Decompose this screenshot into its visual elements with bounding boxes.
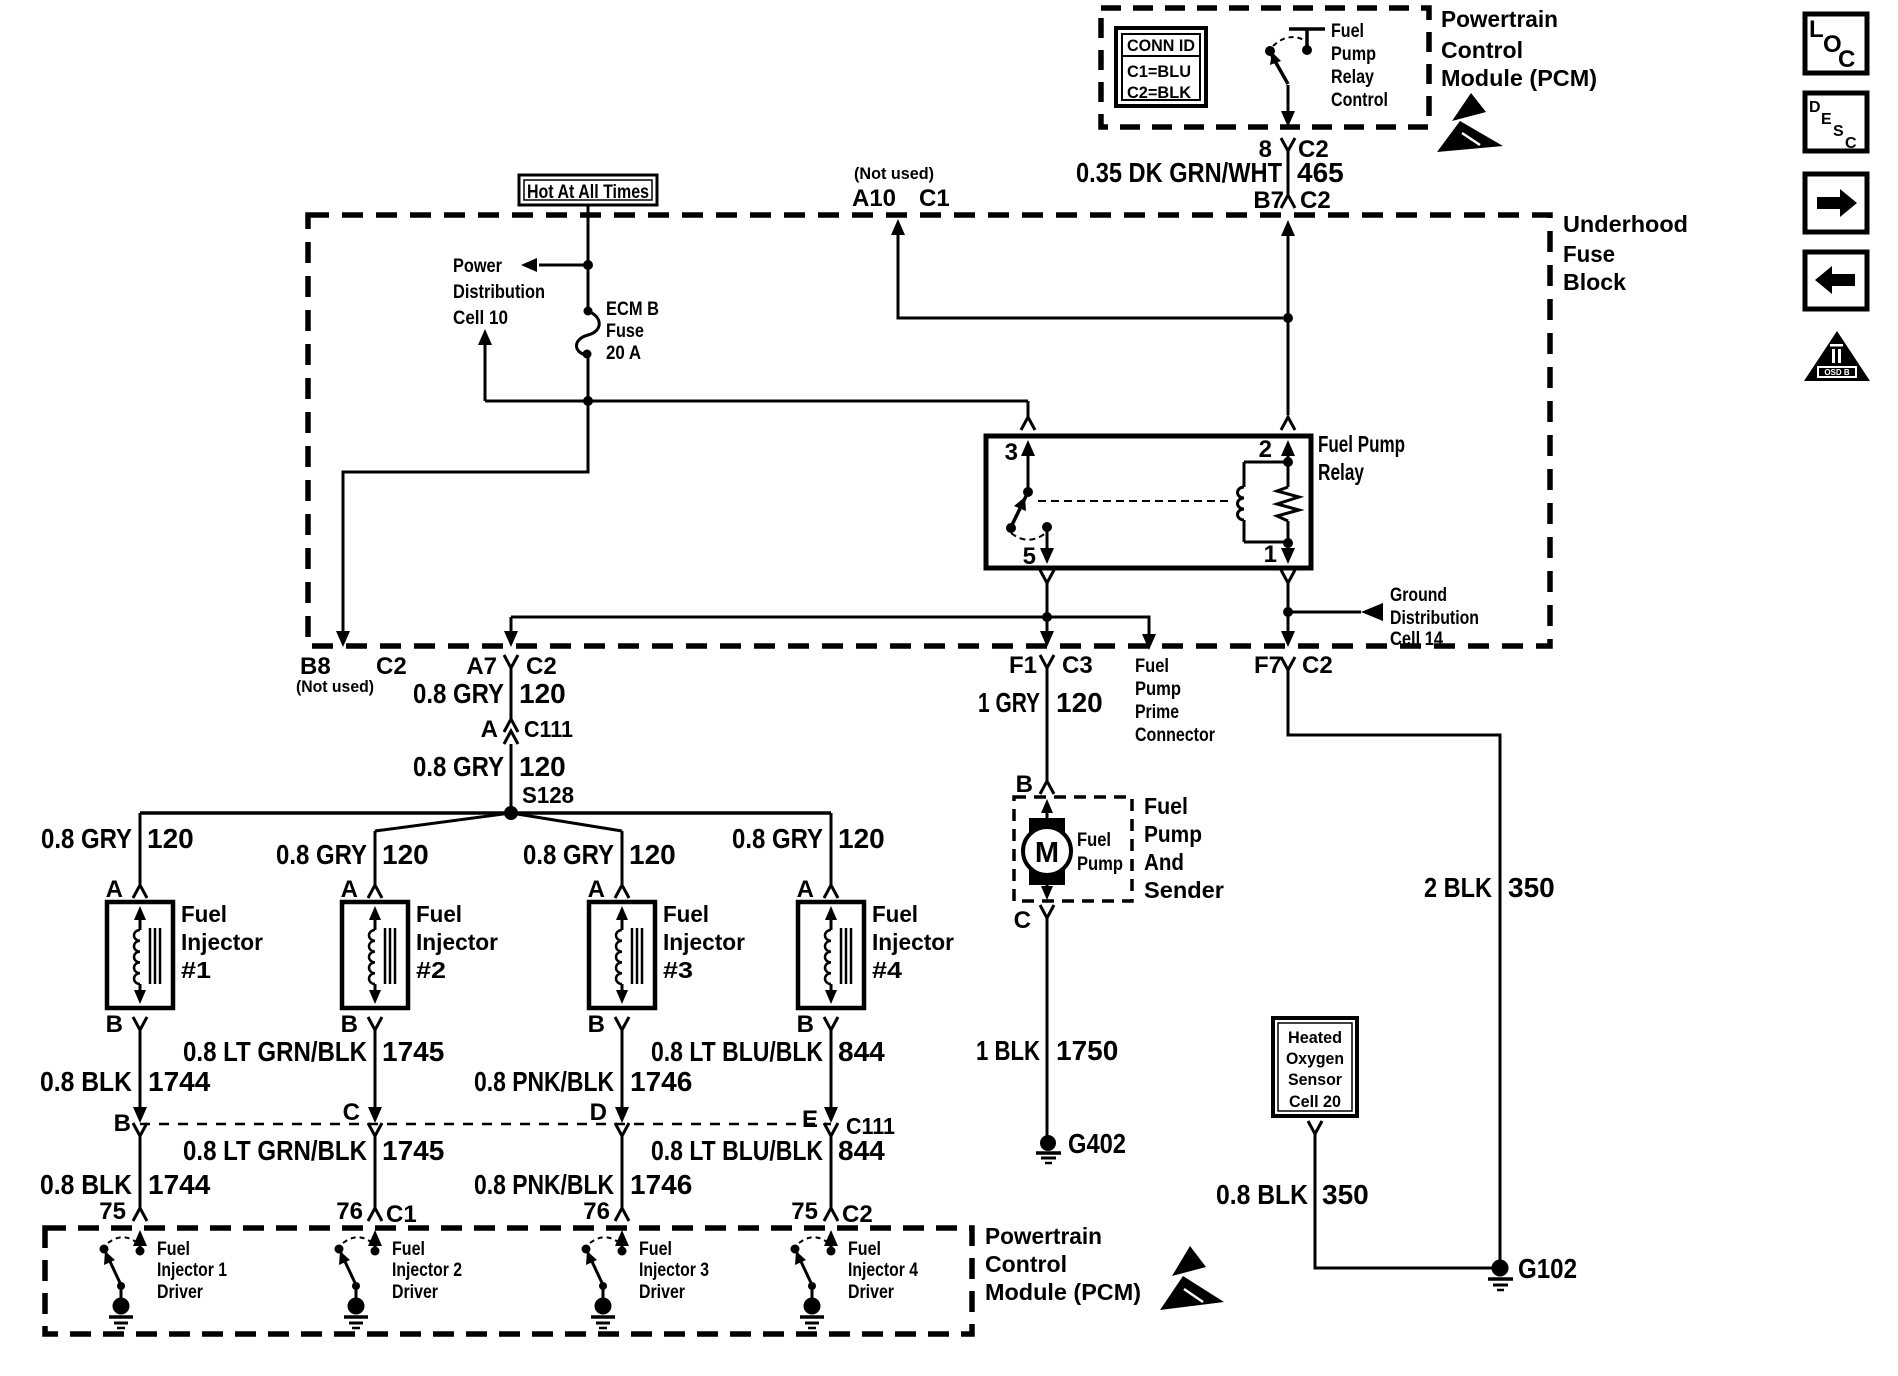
svg-text:1 BLK: 1 BLK	[976, 1035, 1040, 1066]
connector A C111	[481, 716, 574, 744]
svg-text:A7: A7	[466, 653, 497, 680]
svg-text:C1: C1	[919, 185, 950, 212]
svg-text:F1: F1	[1009, 652, 1037, 679]
svg-text:Control: Control	[985, 1251, 1067, 1277]
fuel injector 4 driver	[791, 1230, 839, 1328]
svg-text:Pump: Pump	[1144, 821, 1202, 847]
wire: bus to A7 drop	[511, 616, 1047, 619]
svg-text:A: A	[106, 876, 123, 903]
svg-text:Injector 4: Injector 4	[848, 1260, 918, 1281]
connector B7 C2 (underhood fuse block)	[1281, 195, 1295, 208]
svg-text:#2: #2	[416, 957, 446, 983]
relay resistor	[1277, 462, 1299, 543]
connector below relay pin 5	[1040, 570, 1054, 583]
svg-text:Cell 10: Cell 10	[453, 308, 508, 329]
PCM (bottom) dashed box	[45, 1228, 972, 1334]
svg-text:Fuel: Fuel	[663, 901, 709, 927]
svg-text:L: L	[1809, 16, 1824, 43]
relay pin 1	[1264, 538, 1295, 568]
svg-text:0.8 BLK: 0.8 BLK	[40, 1066, 132, 1097]
svg-text:Driver: Driver	[848, 1282, 895, 1303]
svg-text:A: A	[797, 876, 814, 903]
connector C111 inline row	[140, 1123, 831, 1126]
svg-text:Injector: Injector	[416, 929, 498, 955]
connector pin B injector 2	[368, 1017, 382, 1030]
svg-text:76: 76	[336, 1198, 363, 1225]
svg-text:Cell 20: Cell 20	[1289, 1092, 1341, 1111]
wire: A10 C1 branch (not used)	[891, 219, 905, 235]
fuel pump relay box	[986, 436, 1311, 568]
svg-text:Heated: Heated	[1288, 1028, 1342, 1047]
svg-text:Sender: Sender	[1144, 877, 1224, 903]
svg-text:C: C	[1838, 46, 1855, 73]
label: Fuel Injector #2	[416, 901, 498, 983]
node: junction to A7 bus	[1042, 612, 1052, 622]
svg-text:Fuel: Fuel	[848, 1239, 881, 1260]
connector PCM pin, injector 3	[615, 1208, 629, 1221]
connector pin A injector 4	[824, 885, 838, 898]
connector A7 C2	[504, 655, 518, 668]
wire: injector 4 return	[830, 1030, 833, 1114]
wire: F7 to G102 (2 BLK 350)	[1288, 670, 1500, 1261]
svg-text:Control: Control	[1441, 37, 1523, 63]
relay pin 3	[1005, 401, 1035, 492]
svg-text:E: E	[802, 1106, 818, 1133]
svg-text:S128: S128	[522, 782, 574, 808]
svg-text:Injector: Injector	[872, 929, 954, 955]
connector pin B fuel pump	[1040, 781, 1054, 794]
svg-text:75: 75	[99, 1198, 126, 1225]
svg-text:Connector: Connector	[1135, 725, 1216, 746]
sidebar LOC button	[1805, 14, 1867, 73]
sidebar DESC button	[1805, 93, 1867, 152]
fuel pump relay control switch (PCM driver)	[1265, 29, 1325, 84]
wire: feed bus to relay pin 3	[485, 400, 1028, 403]
svg-text:5: 5	[1023, 543, 1036, 570]
svg-text:(Not used): (Not used)	[296, 677, 374, 696]
svg-text:C: C	[343, 1099, 360, 1126]
connector pin A injector 2	[368, 885, 382, 898]
svg-text:Fuel: Fuel	[1331, 21, 1364, 42]
svg-text:B: B	[114, 1110, 131, 1137]
label: Power Distribution Cell 10	[453, 256, 545, 329]
label: (Not used) A10 C1	[852, 164, 950, 212]
label: Fuel Injector 4 Driver	[848, 1239, 918, 1303]
wire: 0.8 GRY feed to injector 3	[621, 831, 624, 884]
ESD sensitivity symbol (bottom)	[1160, 1246, 1224, 1310]
svg-text:0.8 GRY: 0.8 GRY	[276, 839, 367, 870]
svg-text:Pump: Pump	[1331, 44, 1376, 65]
svg-text:1744: 1744	[148, 1169, 211, 1200]
connector below relay pin 1	[1281, 570, 1295, 583]
relay coil link (dashed)	[1038, 500, 1232, 502]
svg-text:Fuel: Fuel	[1135, 656, 1169, 677]
svg-text:Block: Block	[1563, 269, 1626, 295]
svg-text:0.8 GRY: 0.8 GRY	[413, 678, 504, 709]
svg-text:Distribution: Distribution	[1390, 608, 1479, 629]
svg-text:120: 120	[838, 823, 885, 854]
fuel injector #4	[798, 902, 864, 1008]
svg-text:0.8 GRY: 0.8 GRY	[41, 823, 132, 854]
svg-text:Fuel Pump: Fuel Pump	[1318, 431, 1405, 457]
wire: injector 3 return	[621, 1030, 624, 1114]
svg-text:Powertrain: Powertrain	[985, 1223, 1102, 1249]
svg-text:120: 120	[519, 678, 566, 709]
label: B8 C2 (Not used)	[296, 653, 407, 696]
wire: hot feed down from Hot At All Times	[587, 205, 590, 265]
connector C111 row, injector 2	[368, 1123, 382, 1136]
wire: F1 crossing	[1040, 631, 1054, 647]
relay pin 5	[1023, 527, 1054, 570]
svg-text:B7: B7	[1253, 187, 1284, 214]
svg-text:#1: #1	[181, 957, 211, 983]
svg-text:Hot At All Times: Hot At All Times	[527, 182, 649, 203]
svg-text:C2=BLK: C2=BLK	[1127, 83, 1192, 102]
sidebar forward arrow button	[1805, 174, 1867, 232]
wire+arrow: Ground Distribution Cell 14	[1288, 611, 1361, 614]
fuel injector 3 driver	[582, 1230, 630, 1328]
svg-text:Powertrain: Powertrain	[1441, 6, 1558, 32]
svg-text:Injector 2: Injector 2	[392, 1260, 462, 1281]
connector F7 C2	[1281, 657, 1295, 670]
wire: F1 to fuel pump (1 GRY 120)	[1046, 668, 1049, 780]
svg-text:Oxygen: Oxygen	[1286, 1049, 1344, 1068]
svg-text:C3: C3	[1062, 652, 1093, 679]
wire 0.8 GRY 120 (A7 to C111)	[510, 668, 513, 719]
svg-text:Fuel: Fuel	[1144, 793, 1188, 819]
fuse ECM B 20 A	[576, 307, 599, 359]
svg-text:D: D	[590, 1099, 607, 1126]
svg-text:0.8 BLK: 0.8 BLK	[40, 1169, 132, 1200]
label: Powertrain Control Module (PCM) top	[1441, 6, 1597, 91]
svg-text:S: S	[1833, 123, 1844, 140]
connector PCM pin, injector 1	[133, 1208, 147, 1221]
svg-text:Power: Power	[453, 256, 503, 277]
svg-text:0.8 LT BLU/BLK: 0.8 LT BLU/BLK	[651, 1036, 823, 1067]
svg-text:350: 350	[1508, 872, 1555, 903]
svg-text:#4: #4	[872, 957, 902, 983]
wire: diagonal to injector 2	[375, 813, 511, 831]
svg-text:Fuel: Fuel	[181, 901, 227, 927]
sidebar caution triangle	[1804, 331, 1870, 381]
connector pin A injector 3	[615, 885, 629, 898]
svg-text:Fuse: Fuse	[606, 321, 644, 342]
label: Fuel Injector 1 Driver	[157, 1239, 227, 1303]
fuel pump and sender dashed box	[1014, 797, 1132, 901]
wire 0.35 DK GRN/WHT 465	[1287, 151, 1290, 194]
wire: injector 1 return	[139, 1030, 142, 1114]
svg-text:C2: C2	[526, 653, 557, 680]
svg-text:0.35 DK GRN/WHT: 0.35 DK GRN/WHT	[1076, 157, 1282, 188]
svg-text:Fuel: Fuel	[416, 901, 462, 927]
svg-text:Fuel: Fuel	[392, 1239, 425, 1260]
svg-text:120: 120	[519, 751, 566, 782]
wire: arrow up to Cell 10 text	[484, 345, 487, 401]
svg-text:C1: C1	[386, 1201, 417, 1228]
relay switch arm	[1006, 487, 1052, 540]
svg-text:1745: 1745	[382, 1135, 444, 1166]
node: junction at power distribution tap	[583, 260, 593, 270]
PCM (top) dashed box	[1101, 8, 1429, 127]
relay pin 2	[1259, 436, 1295, 467]
svg-text:465: 465	[1297, 157, 1344, 188]
node: fuse output junction	[583, 396, 593, 406]
svg-text:A: A	[341, 876, 358, 903]
svg-text:A: A	[588, 876, 605, 903]
svg-text:0.8 LT GRN/BLK: 0.8 LT GRN/BLK	[183, 1135, 367, 1166]
label: Fuel Injector #4	[872, 901, 954, 983]
wire: injector 2 return	[374, 1030, 377, 1114]
node: junction with A10 branch	[1283, 313, 1293, 323]
svg-text:B: B	[588, 1011, 605, 1038]
svg-text:0.8 LT BLU/BLK: 0.8 LT BLU/BLK	[651, 1135, 823, 1166]
svg-text:B: B	[797, 1011, 814, 1038]
node: ground distribution tap	[1283, 607, 1293, 617]
svg-text:D: D	[1809, 99, 1821, 116]
label: Fuel Injector 2 Driver	[392, 1239, 462, 1303]
svg-text:1: 1	[1264, 541, 1277, 568]
label: Fuel Pump Prime Connector	[1135, 656, 1216, 746]
wire: C111 to PCM pin, injector 4	[830, 1136, 833, 1208]
svg-text:Injector 3: Injector 3	[639, 1260, 709, 1281]
ESD sensitivity symbol (top)	[1437, 93, 1503, 152]
svg-text:120: 120	[147, 823, 194, 854]
svg-text:844: 844	[838, 1135, 885, 1166]
svg-text:C2: C2	[376, 653, 407, 680]
svg-text:Fuel: Fuel	[872, 901, 918, 927]
wire: fuel pump to G402 (1 BLK 1750)	[1046, 918, 1049, 1136]
svg-text:Injector 1: Injector 1	[157, 1260, 227, 1281]
wire: C111 to PCM pin, injector 2	[374, 1136, 377, 1208]
svg-text:Pump: Pump	[1077, 854, 1123, 875]
svg-text:C: C	[1014, 907, 1031, 934]
wire: B7 feed down to relay pin 2	[1281, 220, 1295, 236]
connector pin C fuel pump	[1040, 905, 1054, 918]
svg-text:A: A	[481, 716, 498, 743]
svg-text:76: 76	[583, 1198, 610, 1225]
connector PCM pin, injector 4	[824, 1208, 838, 1221]
svg-text:1746: 1746	[630, 1066, 692, 1097]
wire: into ECM B fuse	[587, 265, 590, 311]
svg-text:Module (PCM): Module (PCM)	[1441, 65, 1597, 91]
connector pin B injector 1	[133, 1017, 147, 1030]
wire: 0.8 GRY feed to injector 1	[139, 813, 142, 884]
wire 0.8 GRY 120 (C111 to S128)	[510, 744, 513, 813]
svg-text:Sensor: Sensor	[1288, 1070, 1342, 1089]
svg-text:350: 350	[1322, 1179, 1369, 1210]
relay coil	[1238, 462, 1288, 542]
connector below O2 sensor box	[1308, 1121, 1322, 1134]
connector C111 row, injector 1	[133, 1123, 147, 1136]
svg-text:120: 120	[1056, 687, 1103, 718]
svg-text:0.8 BLK: 0.8 BLK	[1216, 1179, 1308, 1210]
svg-text:OSD B: OSD B	[1824, 368, 1850, 377]
svg-text:Control: Control	[1331, 90, 1388, 111]
wire: A7 drop	[510, 617, 513, 631]
connector C111 row, injector 4	[824, 1123, 838, 1136]
wire: 0.8 GRY feed to injector 2	[374, 831, 377, 884]
svg-text:1744: 1744	[148, 1066, 211, 1097]
svg-text:Distribution: Distribution	[453, 282, 545, 303]
fuel injector #1	[107, 902, 173, 1008]
svg-text:B: B	[1016, 771, 1033, 798]
svg-text:1746: 1746	[630, 1169, 692, 1200]
fuel injector #2	[342, 902, 408, 1008]
connector C111 row, injector 3	[615, 1123, 629, 1136]
svg-text:A10: A10	[852, 185, 896, 212]
connector PCM pin, injector 2	[368, 1208, 382, 1221]
ground G102	[1488, 1253, 1577, 1290]
connector into relay pin 2	[1281, 417, 1295, 430]
label: Powertrain Control Module (PCM) bottom	[985, 1223, 1141, 1305]
wire: fuel pump prime connector drop	[1047, 617, 1149, 634]
fuel injector 2 driver	[335, 1230, 383, 1328]
svg-text:120: 120	[382, 839, 429, 870]
svg-text:C1=BLU: C1=BLU	[1127, 62, 1191, 81]
wire: fuse output	[587, 354, 590, 401]
svg-text:Driver: Driver	[639, 1282, 686, 1303]
sidebar back arrow button	[1805, 252, 1867, 309]
svg-text:120: 120	[629, 839, 676, 870]
svg-text:Fuel: Fuel	[639, 1239, 672, 1260]
svg-text:ECM B: ECM B	[606, 299, 659, 320]
wire: O2 sensor ground (0.8 BLK 350)	[1315, 1134, 1492, 1268]
svg-text:C2: C2	[1300, 187, 1331, 214]
svg-text:Module (PCM): Module (PCM)	[985, 1279, 1141, 1305]
connector F1 C3	[1040, 655, 1054, 668]
wire: C111 to PCM pin, injector 1	[139, 1136, 142, 1208]
wire: pin 5 to F1	[1046, 583, 1049, 631]
svg-text:E: E	[1821, 111, 1832, 128]
wire: diagonal to injector 3	[511, 813, 622, 831]
svg-text:Injector: Injector	[181, 929, 263, 955]
connector pin B injector 3	[615, 1017, 629, 1030]
svg-text:0.8 GRY: 0.8 GRY	[413, 751, 504, 782]
connector 8 C2 (PCM)	[1281, 138, 1295, 151]
svg-text:B: B	[341, 1011, 358, 1038]
svg-text:0.8 LT GRN/BLK: 0.8 LT GRN/BLK	[183, 1036, 367, 1067]
label: Fuel Pump And Sender	[1144, 793, 1224, 903]
svg-text:0.8 GRY: 0.8 GRY	[732, 823, 823, 854]
fuel injector #3	[589, 902, 655, 1008]
svg-text:#3: #3	[663, 957, 693, 983]
svg-text:M: M	[1035, 837, 1059, 869]
svg-text:Fuel: Fuel	[157, 1239, 190, 1260]
svg-text:3: 3	[1005, 439, 1018, 466]
svg-text:And: And	[1144, 849, 1184, 875]
fuel pump motor	[1023, 799, 1071, 900]
wire: relay control to 8/C2	[1287, 85, 1290, 112]
wire: F7 crossing	[1281, 631, 1295, 647]
svg-text:G402: G402	[1068, 1128, 1126, 1159]
svg-text:Relay: Relay	[1318, 459, 1364, 485]
label: Underhood Fuse Block	[1563, 211, 1688, 295]
label: Fuel Injector #1	[181, 901, 263, 983]
label: ECM B Fuse 20 A	[606, 299, 659, 364]
svg-text:0.8 PNK/BLK: 0.8 PNK/BLK	[474, 1066, 614, 1097]
label: Fuel Injector #3	[663, 901, 745, 983]
svg-text:Relay: Relay	[1331, 67, 1374, 88]
svg-text:1750: 1750	[1056, 1035, 1118, 1066]
svg-text:1 GRY: 1 GRY	[978, 687, 1040, 718]
svg-text:B8: B8	[300, 653, 331, 680]
connector pin B injector 4	[824, 1017, 838, 1030]
svg-text:1745: 1745	[382, 1036, 444, 1067]
Heated Oxygen Sensor Cell 20 box	[1273, 1018, 1357, 1116]
svg-text:Fuse: Fuse	[1563, 241, 1615, 267]
svg-text:Injector: Injector	[663, 929, 745, 955]
label: Fuel Pump Relay Control	[1331, 21, 1388, 111]
svg-text:20 A: 20 A	[606, 343, 641, 364]
CONN ID table	[1116, 28, 1206, 106]
svg-text:Driver: Driver	[392, 1282, 439, 1303]
svg-text:Prime: Prime	[1135, 702, 1179, 723]
wire: 0.8 GRY feed to injector 4	[830, 813, 833, 884]
svg-text:(Not used): (Not used)	[854, 164, 934, 183]
label: Fuel Injector 3 Driver	[639, 1239, 709, 1303]
svg-text:Driver: Driver	[157, 1282, 204, 1303]
svg-text:2: 2	[1259, 436, 1272, 463]
svg-text:2 BLK: 2 BLK	[1424, 872, 1492, 903]
svg-text:Cell 14: Cell 14	[1390, 629, 1443, 650]
svg-text:0.8 GRY: 0.8 GRY	[523, 839, 614, 870]
wire: to Power Distribution Cell 10	[539, 264, 588, 267]
svg-text:C111: C111	[524, 716, 573, 742]
svg-text:CONN ID: CONN ID	[1127, 36, 1195, 55]
wire: pin 1 to ground distribution	[1287, 583, 1290, 631]
svg-text:F7: F7	[1254, 652, 1282, 679]
connector pin A injector 1	[133, 885, 147, 898]
wire: C111 to PCM pin, injector 3	[621, 1136, 624, 1208]
label: Fuel Pump Relay	[1318, 431, 1405, 485]
svg-text:Fuel: Fuel	[1077, 830, 1111, 851]
svg-text:G102: G102	[1518, 1253, 1577, 1284]
svg-text:B: B	[106, 1011, 123, 1038]
svg-text:Ground: Ground	[1390, 585, 1447, 606]
svg-text:C2: C2	[842, 1201, 873, 1228]
Hot At All Times box	[519, 175, 657, 205]
svg-text:C2: C2	[1302, 652, 1333, 679]
wire: injector feed bus	[140, 811, 831, 815]
fuel injector 1 driver	[100, 1230, 148, 1328]
svg-text:Underhood: Underhood	[1563, 211, 1688, 237]
svg-text:C: C	[1845, 135, 1857, 152]
svg-text:844: 844	[838, 1036, 885, 1067]
Underhood Fuse Block dashed box	[308, 215, 1550, 646]
ground G402	[1036, 1128, 1126, 1163]
svg-text:Pump: Pump	[1135, 679, 1181, 700]
wire: B8 branch (not used)	[343, 401, 588, 631]
svg-text:0.8 PNK/BLK: 0.8 PNK/BLK	[474, 1169, 614, 1200]
svg-text:75: 75	[791, 1198, 818, 1225]
